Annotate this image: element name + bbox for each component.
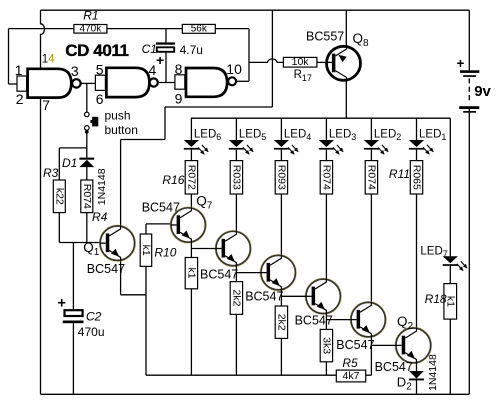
svg-text:9: 9 [175,91,183,107]
svg-text:56k: 56k [191,23,208,34]
svg-text:BC557: BC557 [306,30,344,44]
svg-text:+: + [156,52,164,68]
svg-text:3k3: 3k3 [320,337,332,354]
svg-text:R1: R1 [83,8,98,22]
svg-text:BC547: BC547 [375,360,413,374]
svg-text:C1: C1 [142,42,157,56]
svg-text:k1: k1 [140,245,152,256]
svg-text:6: 6 [96,91,104,107]
svg-text:10: 10 [226,61,242,77]
svg-text:1N4148: 1N4148 [427,354,439,391]
svg-text:R074: R074 [81,184,93,209]
svg-text:R093: R093 [275,165,287,190]
svg-text:4.7u: 4.7u [180,43,203,57]
svg-text:D1: D1 [62,156,77,170]
svg-text:470u: 470u [78,325,105,339]
svg-text:4: 4 [149,62,157,78]
svg-text:BC547: BC547 [336,338,374,352]
svg-text:R065: R065 [411,165,423,190]
svg-text:BC547: BC547 [142,201,180,215]
svg-text:push: push [105,109,131,123]
svg-text:5: 5 [96,61,104,77]
svg-text:R074: R074 [320,165,332,190]
svg-text:1: 1 [15,62,23,78]
svg-text:BC547: BC547 [200,268,238,282]
svg-text:10k: 10k [292,56,310,68]
svg-text:k1: k1 [185,268,197,279]
svg-text:k22: k22 [53,188,65,205]
svg-text:470k: 470k [80,23,103,34]
svg-text:R18: R18 [425,292,447,306]
svg-text:button: button [105,123,138,137]
svg-text:8: 8 [175,61,183,77]
svg-text:BC547: BC547 [295,314,333,328]
svg-text:C2: C2 [86,310,102,324]
svg-text:R16: R16 [162,173,184,187]
svg-text:9v: 9v [474,83,491,100]
svg-text:2k2: 2k2 [275,314,287,331]
svg-text:BC547: BC547 [245,290,283,304]
svg-text:3: 3 [71,63,79,79]
svg-text:R4: R4 [92,210,108,224]
svg-text:R074: R074 [365,165,377,190]
svg-text:2k2: 2k2 [230,290,242,307]
svg-text:CD 4011: CD 4011 [65,41,128,60]
svg-text:R5: R5 [342,356,358,370]
svg-text:+: + [457,56,465,71]
svg-text:4k7: 4k7 [343,370,360,382]
svg-text:1N4148: 1N4148 [96,168,108,205]
svg-text:R033: R033 [230,165,242,190]
svg-text:BC547: BC547 [87,262,125,276]
svg-text:2: 2 [16,91,24,107]
svg-text:R072: R072 [185,165,197,190]
svg-text:R10: R10 [154,246,176,260]
svg-text:R3: R3 [43,166,59,180]
svg-text:7: 7 [42,97,50,113]
svg-text:+: + [58,296,66,312]
svg-text:14: 14 [42,53,55,65]
svg-text:R11: R11 [389,167,410,181]
